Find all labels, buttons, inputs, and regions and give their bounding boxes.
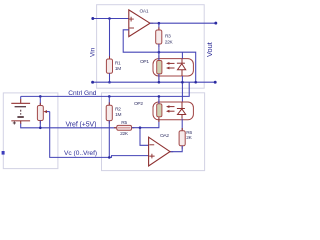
- svg-text:Cntrl Gnd: Cntrl Gnd: [68, 90, 97, 97]
- LDR2 body: [157, 104, 162, 117]
- node R1 top junction: [108, 17, 111, 20]
- wire R1 top stub: [109, 19, 111, 60]
- optocoupler OP1: [153, 59, 193, 76]
- module box B (bottom left): [3, 93, 58, 169]
- resistor R5: [114, 127, 134, 129]
- wire Vin- rail: [93, 81, 215, 83]
- optocoupler OP2: [153, 102, 193, 120]
- resistor R6: [181, 128, 183, 149]
- wire LDR1 top: [158, 56, 160, 81]
- pot wiper arrow: [46, 111, 50, 113]
- resistor R3: [158, 27, 160, 47]
- svg-text:Vref (+5V): Vref (+5V): [66, 121, 97, 128]
- wire R2 top stub: [108, 96, 110, 105]
- svg-text:R3: R3: [165, 34, 171, 40]
- node R1 bottom junction: [108, 81, 111, 84]
- svg-text:OA2: OA2: [160, 133, 169, 139]
- wire LED2 anode inside: [181, 102, 183, 119]
- wire R1 bottom stub: [109, 73, 111, 82]
- wire pot wiper to Vc: [50, 112, 149, 158]
- arrows OP1: [169, 62, 175, 64]
- svg-text:1M: 1M: [115, 66, 121, 72]
- node pot bottom junction: [39, 127, 42, 130]
- svg-text:R5: R5: [121, 120, 127, 126]
- LED1 diode: [177, 62, 185, 64]
- node Vout- terminal: [214, 81, 217, 84]
- wire R5 right: [132, 119, 159, 128]
- port square (bottom-left box): [2, 151, 5, 155]
- wire R2 bottom to Vc: [108, 121, 110, 158]
- module box A (top right): [97, 5, 205, 89]
- node feedback/R3/LDR junction: [158, 51, 161, 54]
- wire LED1 cathode down to OP2: [181, 76, 183, 102]
- svg-text:22K: 22K: [120, 131, 129, 137]
- node R5/OA2 junction: [139, 126, 142, 129]
- node LDR1 rail junction: [158, 81, 161, 84]
- wire R3 top stub: [158, 23, 160, 30]
- wire battery bottom to Vref: [20, 121, 22, 124]
- svg-text:Vc (0..Vref): Vc (0..Vref): [64, 150, 97, 157]
- svg-text:22K: 22K: [165, 39, 174, 45]
- svg-text:1M: 1M: [115, 112, 121, 118]
- potentiometer R4: [39, 103, 41, 124]
- wire OA1 feedback: [123, 30, 196, 82]
- wire LED1 anode stub: [181, 52, 183, 58]
- battery B1: [20, 96, 22, 99]
- wire LDR1 bottom: [158, 74, 160, 82]
- wire pot top stub: [39, 96, 41, 105]
- node Vout+ terminal: [214, 22, 217, 25]
- node LDR2 top junction: [158, 95, 161, 98]
- svg-text:OP1: OP1: [140, 59, 149, 65]
- wire R6 bottom to OA2 out: [170, 151, 173, 153]
- svg-text:Vin: Vin: [90, 47, 97, 57]
- svg-text:OA1: OA1: [140, 9, 149, 15]
- wire LDR2 top: [158, 100, 160, 123]
- svg-text:2K: 2K: [186, 135, 192, 141]
- wire Cntrl Gnd: [21, 82, 190, 96]
- op-amp OA1: [129, 10, 150, 37]
- resistor R2: [108, 102, 110, 123]
- LED2 diode: [177, 108, 185, 110]
- wire OA2 inverting feed: [140, 128, 149, 146]
- node Vin- terminal: [91, 81, 94, 84]
- node wire-end at rail: [194, 81, 197, 84]
- wire pot bottom stub: [39, 121, 41, 128]
- node pot top junction: [39, 95, 42, 98]
- node R2 top junction: [108, 95, 111, 98]
- LDR1 body: [157, 61, 162, 74]
- wire Vin+ top: [93, 18, 129, 20]
- node LED1 rail junction: [181, 81, 184, 84]
- node Vin+ terminal: [91, 17, 94, 20]
- resistor R1: [109, 56, 111, 76]
- wire R3 bottom stub: [158, 44, 160, 52]
- node OA1 output junction: [158, 22, 161, 25]
- svg-text:Vout: Vout: [205, 42, 214, 57]
- wire OA1 output: [150, 22, 153, 24]
- svg-text:R6: R6: [186, 130, 192, 136]
- svg-text:R1: R1: [115, 61, 121, 67]
- svg-text:R2: R2: [115, 107, 121, 113]
- svg-text:OP2: OP2: [134, 101, 143, 107]
- arrows OP2: [169, 106, 175, 108]
- op-amp OA2: [149, 137, 170, 166]
- node R2/Vc junction: [108, 156, 111, 159]
- module box C (bottom right): [102, 93, 205, 171]
- wire LED2 cathode to R6: [181, 119, 183, 131]
